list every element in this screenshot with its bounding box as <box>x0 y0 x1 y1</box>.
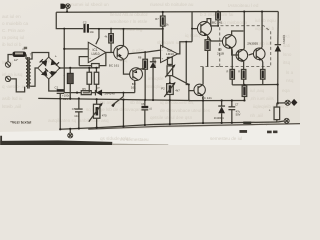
wire from C2 to R7 column <box>89 28 163 30</box>
svg-text:sb sqam iuns: sb sqam iuns <box>157 40 185 45</box>
resistor R16 current sense <box>242 84 247 101</box>
svg-text:semesteu de iul: semesteu de iul <box>210 136 242 141</box>
diode D7 1N4001 to bottom rail <box>214 100 225 122</box>
svg-text:P2: P2 <box>161 86 165 90</box>
svg-text:sb ite: sb ite <box>130 100 141 105</box>
bleed-through ghost text <box>2 2 294 142</box>
svg-text:R8: R8 <box>138 56 142 60</box>
svg-text:tAsnoiteau l ed: tAsnoiteau l ed <box>228 3 259 8</box>
wire node row y100 right part <box>189 99 244 101</box>
ground bar on rail <box>243 122 251 124</box>
resistor R2 vertical <box>87 68 92 93</box>
terminal input A <box>5 62 10 67</box>
svg-text:ls ,nh iuet aiils: ls ,nh iuet aiils <box>245 96 275 101</box>
svg-text:LM10: LM10 <box>166 52 174 56</box>
svg-text:riuseul sb noituloe au: riuseul sb noituloe au <box>150 2 194 7</box>
wire drop x123 mid to bottom <box>122 100 124 126</box>
schematic ink <box>0 4 300 146</box>
resistor R10 on feedback column <box>167 57 172 64</box>
diode D6 protection on rail drop <box>275 11 286 103</box>
wire diode row y92 <box>64 92 81 94</box>
transistor T4 BC141 driver <box>197 21 222 36</box>
svg-text:qs sldude telqs: qs sldude telqs <box>100 136 131 141</box>
dark mark below rail <box>239 130 247 133</box>
svg-text:lsteib ,aiil: lsteib ,aiil <box>2 104 21 109</box>
svg-text:R: R <box>226 71 228 74</box>
paper background <box>0 0 300 145</box>
svg-text:itsq: itsq <box>283 60 291 65</box>
potentiometer P1 <box>89 100 107 128</box>
resistor R6 vertical above opamp1 output <box>105 28 114 53</box>
svg-text:ib lsd ol b: ib lsd ol b <box>2 42 22 47</box>
wire T4 emitter to T5 base <box>207 35 223 41</box>
bridge rectifier <box>38 55 61 79</box>
stray mark top left <box>24 47 27 49</box>
svg-text:BC 141: BC 141 <box>212 21 223 25</box>
svg-text:asib lsd iu: asib lsd iu <box>2 96 23 101</box>
wire drop x189 <box>188 91 190 101</box>
wire T5 emitter to T6 base <box>232 48 239 55</box>
svg-text:b 3 inuemsim fai: b 3 inuemsim fai <box>200 12 233 17</box>
svg-text:LM10: LM10 <box>92 52 100 56</box>
svg-text:iiqoloqii b: iiqoloqii b <box>255 26 275 31</box>
svg-text:amoltese r ln etsle: amoltese r ln etsle <box>110 19 148 24</box>
ground terminal below bottom rail <box>68 129 73 138</box>
resistor R8 vertical <box>138 52 147 100</box>
wire terminal B to transformer primary bottom <box>11 79 25 92</box>
wire secondary top to bridge top corner <box>31 53 49 60</box>
potentiometer P3 <box>161 82 180 124</box>
wire IC2 supply drop <box>162 29 164 46</box>
wire opamp1 noninverting input <box>79 57 88 66</box>
transistor T3 BC141 <box>194 84 212 100</box>
bleeder resistor R17 <box>269 103 280 122</box>
wire T1 emitter to T2 base <box>123 59 130 74</box>
wire T5 collector up <box>232 31 244 35</box>
svg-text:C2: C2 <box>83 20 87 24</box>
svg-text:-: - <box>162 48 163 52</box>
svg-text:50V: 50V <box>236 113 241 117</box>
wire bottom rail <box>60 122 277 129</box>
op-amp IC1 <box>88 42 106 62</box>
op-amp IC2 <box>161 45 178 62</box>
wire T4 collector to R11 <box>207 19 218 26</box>
svg-text:241B: 241B <box>217 51 224 55</box>
wire diode row to drop at x123 <box>122 93 124 97</box>
wire T7 base link <box>249 54 253 55</box>
svg-text:-: - <box>89 48 90 52</box>
svg-text:aut iul en: aut iul en <box>2 14 21 19</box>
svg-text:1N4148: 1N4148 <box>104 91 115 95</box>
svg-text:*Vezi textul: *Vezi textul <box>10 120 31 125</box>
capacitor C2 top <box>83 20 95 34</box>
emitter resistor R15 <box>261 60 265 85</box>
lamp indicator at top <box>60 4 70 13</box>
svg-text:47u: 47u <box>236 109 241 113</box>
transistor T1 BC161 <box>109 45 129 67</box>
svg-text:BC 161: BC 161 <box>109 63 120 67</box>
svg-text:q -aetab- a: q -aetab- a <box>2 84 25 89</box>
svg-text:1N4001: 1N4001 <box>214 116 225 120</box>
svg-text:1N4148: 1N4148 <box>153 59 157 69</box>
capacitor C3 electrolytic on V+ bus <box>63 68 73 100</box>
wire left drop from rail <box>56 12 83 28</box>
wire IC2 lower input to zener <box>153 58 161 62</box>
transistor T6 2N3055 <box>236 49 248 63</box>
resistor R7 vertical from top rail <box>155 12 169 48</box>
wire opamp1 output to T1 base <box>106 51 114 53</box>
wire bridge bottom to C1 <box>49 79 57 91</box>
svg-text:2N3055: 2N3055 <box>247 41 258 45</box>
svg-text:470: 470 <box>102 113 107 117</box>
svg-text:R: R <box>238 71 240 74</box>
wire secondary bottom to bridge left corner <box>31 68 38 86</box>
svg-text:eqa: eqa <box>282 88 290 93</box>
svg-text:lsteiqtiq: lsteiqtiq <box>146 84 162 89</box>
junction dots on rails <box>59 10 279 130</box>
wire trimmer junction to T3 base <box>172 76 194 91</box>
dashed heatsink box <box>220 26 271 67</box>
wire top positive rail <box>56 10 278 13</box>
svg-text:C7: C7 <box>235 103 239 107</box>
wire fuse to transformer primary <box>25 54 27 59</box>
svg-text:lsno: lsno <box>283 52 292 57</box>
wire long vertical from top-left wire to opamp1 input row <box>63 29 65 93</box>
svg-text:nh ,aiil: nh ,aiil <box>250 113 263 118</box>
wiper arrow onto P1 <box>112 96 124 105</box>
small marks below band right <box>267 131 272 134</box>
svg-text:1N4001: 1N4001 <box>282 34 286 44</box>
capacitor C5 <box>72 99 83 128</box>
wire IC2 output <box>178 42 192 54</box>
wire T3 emitter down <box>202 96 204 123</box>
transistor T2 BC161 <box>130 68 143 90</box>
wire IC2 top input from R8 <box>128 50 160 54</box>
wire bridge plus output to V+ bus <box>60 67 97 69</box>
svg-text:iul ,aiiq: iul ,aiiq <box>250 88 265 93</box>
trimmer P2 <box>165 64 175 83</box>
svg-text:llenat AB.ai obuloz: llenat AB.ai obuloz <box>110 12 149 17</box>
wire output minus terminal <box>278 118 290 123</box>
svg-text:+: + <box>269 108 271 112</box>
terminal input B <box>5 76 10 81</box>
svg-text:C5: C5 <box>72 107 76 111</box>
emitter resistor R13 <box>226 48 234 85</box>
wire feedback drop from output <box>186 42 189 85</box>
svg-text:+: + <box>162 57 164 61</box>
svg-text:ra poisq iul: ra poisq iul <box>2 35 24 40</box>
svg-text:iul sb eqiu: iul sb eqiu <box>255 18 276 23</box>
resistor R4 feedback under opamp1 <box>79 52 106 67</box>
svg-text:10n: 10n <box>90 30 95 34</box>
wire T6 collector riser to rail <box>243 12 245 49</box>
diode D5 1N4148 <box>91 86 115 96</box>
transistor T5 BD241B <box>217 35 236 56</box>
svg-text:D?: D? <box>96 86 100 90</box>
capacitor C1 main filter <box>55 85 71 101</box>
svg-text:nsq: nsq <box>286 78 294 83</box>
svg-text:10n: 10n <box>74 114 79 118</box>
wire terminal A to fuse <box>8 54 12 61</box>
capacitor C7 output <box>228 100 240 122</box>
svg-text:+: + <box>55 55 57 59</box>
svg-text:R7: R7 <box>155 17 159 21</box>
svg-text:iiqleqieib sb asnu: iiqleqieib sb asnu <box>253 104 289 109</box>
transformer Tr <box>22 48 32 89</box>
resistor R11 from top rail <box>216 12 221 27</box>
wire T1 collector up to y28 wire <box>122 29 124 46</box>
svg-text:o muiebib ca: o muiebib ca <box>2 21 28 26</box>
fuse F1 <box>12 51 26 61</box>
wire output plus node to terminal <box>277 99 298 106</box>
wire T7 collector riser to rail <box>261 12 263 48</box>
wire opamp1 supply pin <box>96 29 99 44</box>
svg-text:qetsile uteul dee qsn: qetsile uteul dee qsn <box>150 115 193 120</box>
wire T2 collector down <box>134 80 136 92</box>
bottom dark band left <box>0 140 112 145</box>
capacitor C6 <box>141 100 152 125</box>
wire opamp1 inverting input <box>64 48 88 50</box>
svg-text:im iqsle: im iqsle <box>148 76 164 81</box>
svg-text:4k7: 4k7 <box>175 89 180 93</box>
riser from IC2 output to T4 base <box>191 12 193 42</box>
zener diode DZ <box>150 59 157 101</box>
svg-text:C. Prin ace: C. Prin ace <box>2 28 25 33</box>
svg-text:R5: R5 <box>82 87 86 91</box>
svg-text:+: + <box>89 56 91 60</box>
wire emitter bus y84.5 <box>232 84 277 86</box>
resistor R5 horizontal <box>81 87 91 95</box>
svg-text:isl oa iusq: isl oa iusq <box>2 72 23 77</box>
svg-text:161: 161 <box>131 85 136 89</box>
wire C1 down to bottom rail <box>59 93 61 129</box>
svg-text:ls a: ls a <box>286 70 294 75</box>
wire T3 collector up <box>202 67 204 85</box>
svg-text:sq maiqe lsb de detuvaqanie: sq maiqe lsb de detuvaqanie <box>86 107 145 112</box>
node mid rail 0V <box>38 98 190 100</box>
svg-text:C1: C1 <box>55 85 59 89</box>
emitter resistor R14 <box>238 62 246 85</box>
resistor R12 vertical <box>205 36 210 66</box>
resistor R3 vertical <box>94 68 99 93</box>
transistor T7 2N3055 <box>247 41 265 61</box>
